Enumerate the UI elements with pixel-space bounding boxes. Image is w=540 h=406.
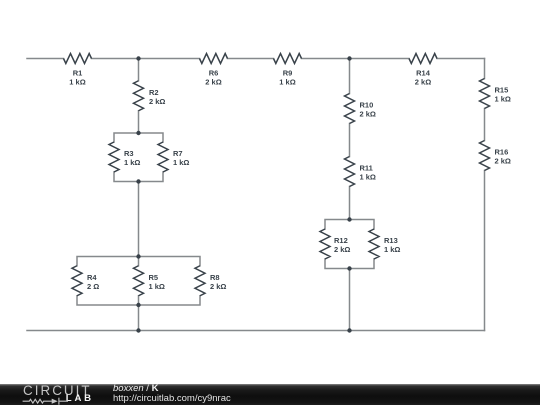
wire column A bottom: [138, 305, 140, 331]
wire column A stubs: [138, 59, 140, 134]
wire right column: [484, 59, 486, 331]
svg-text:R12: R12: [334, 236, 348, 245]
svg-text:R15: R15: [495, 86, 509, 95]
node box2 top junction: [136, 254, 140, 258]
CircuitLab logo resistor-diode glyph: [22, 396, 70, 406]
resistor R6: [200, 54, 228, 64]
svg-text:R14: R14: [416, 69, 431, 78]
resistor R14: [409, 54, 437, 64]
svg-text:2 Ω: 2 Ω: [87, 282, 99, 291]
resistor R7: [158, 142, 168, 172]
wire bottom rail: [27, 330, 485, 332]
resistor R2: [134, 81, 144, 111]
resistor R5: [134, 266, 144, 296]
node top-mid junction: [347, 56, 351, 60]
node box1 bottom junction: [136, 179, 140, 183]
svg-text:1 kΩ: 1 kΩ: [149, 282, 165, 291]
wire column B bottom: [349, 269, 351, 331]
svg-text:R8: R8: [210, 273, 220, 282]
resistor R10: [345, 94, 355, 124]
svg-text:1 kΩ: 1 kΩ: [124, 158, 140, 167]
wire box R12 R13 rails: [325, 220, 374, 269]
svg-text:R10: R10: [360, 101, 374, 110]
node top-left junction: [136, 56, 140, 60]
node box3 top junction: [347, 217, 351, 221]
footer author line: [113, 384, 158, 394]
resistor R11: [345, 157, 355, 187]
wire box R3 R7 rails: [114, 133, 163, 182]
resistor R8: [195, 266, 205, 296]
svg-text:2 kΩ: 2 kΩ: [334, 245, 350, 254]
resistor R9: [274, 54, 302, 64]
svg-text:R2: R2: [149, 88, 159, 97]
svg-text:R3: R3: [124, 149, 134, 158]
node box2 bottom junction: [136, 303, 140, 307]
svg-text:R5: R5: [149, 273, 159, 282]
svg-text:2 kΩ: 2 kΩ: [360, 110, 376, 119]
wire top rail: [27, 58, 485, 60]
resistor R13: [369, 229, 379, 259]
resistor R1: [64, 54, 92, 64]
resistor R3: [109, 142, 119, 172]
svg-text:R7: R7: [173, 149, 183, 158]
node box1 top junction: [136, 131, 140, 135]
resistor R12: [320, 229, 330, 259]
svg-text:1 kΩ: 1 kΩ: [360, 173, 376, 182]
svg-text:1 kΩ: 1 kΩ: [384, 245, 400, 254]
CircuitLab logo wordmark CIRCUIT: [23, 384, 92, 397]
wire column A middle: [138, 182, 140, 257]
svg-text:R4: R4: [87, 273, 97, 282]
resistor R15: [480, 79, 490, 109]
svg-text:1 kΩ: 1 kΩ: [495, 95, 511, 104]
svg-text:R11: R11: [360, 164, 373, 173]
node bottom-left junction: [136, 328, 140, 332]
svg-text:R6: R6: [209, 69, 219, 78]
svg-text:1 kΩ: 1 kΩ: [69, 78, 85, 87]
wire column B stubs: [349, 59, 351, 220]
footer bar: [0, 384, 540, 406]
svg-text:2 kΩ: 2 kΩ: [495, 157, 511, 166]
node bottom-mid junction: [347, 328, 351, 332]
svg-text:2 kΩ: 2 kΩ: [210, 282, 226, 291]
footer url line: [113, 394, 231, 404]
CircuitLab logo wordmark LAB: [66, 394, 94, 404]
svg-text:1 kΩ: 1 kΩ: [173, 158, 189, 167]
svg-text:2 kΩ: 2 kΩ: [415, 78, 431, 87]
resistor R16: [480, 141, 490, 171]
resistor R4: [72, 266, 82, 296]
svg-text:R9: R9: [283, 69, 293, 78]
svg-text:2 kΩ: 2 kΩ: [205, 78, 221, 87]
wire box R4 R5 R8 rails: [77, 257, 200, 306]
svg-text:R16: R16: [495, 148, 509, 157]
node box3 bottom junction: [347, 266, 351, 270]
svg-text:R1: R1: [73, 69, 83, 78]
svg-text:2 kΩ: 2 kΩ: [149, 97, 165, 106]
svg-text:R13: R13: [384, 236, 398, 245]
svg-text:1 kΩ: 1 kΩ: [279, 78, 295, 87]
